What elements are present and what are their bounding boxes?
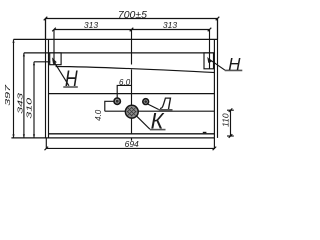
dimension 310 line — [33, 62, 35, 138]
tick 700 right — [216, 17, 220, 21]
svg-text:694: 694 — [125, 139, 139, 149]
hole big hatched — [125, 105, 138, 118]
part right edge outer — [217, 19, 219, 138]
svg-text:110: 110 — [220, 113, 230, 127]
svg-text:4.0: 4.0 — [94, 109, 103, 121]
center line dashed — [131, 30, 133, 141]
arrowhead H right — [207, 57, 211, 63]
svg-text:313: 313 — [163, 20, 177, 30]
svg-text:6.0: 6.0 — [119, 78, 131, 87]
label underline H left — [63, 86, 78, 88]
svg-text:H: H — [228, 54, 241, 74]
part left edge inner — [48, 39, 50, 137]
extension line hinge row 310 — [34, 61, 50, 63]
sloped fold line — [56, 65, 214, 73]
part right edge inner — [213, 39, 215, 137]
dimension 700±5 line — [46, 19, 218, 40]
bottom inner line — [49, 133, 215, 135]
extension line right hinge center — [209, 30, 211, 69]
leader H right — [209, 59, 225, 70]
extension stub 110 top — [227, 109, 234, 111]
leader K — [136, 116, 150, 130]
svg-text:343: 343 — [17, 93, 25, 114]
dimension 313+313 line — [54, 29, 210, 31]
extension stub 110 bottom — [227, 135, 234, 137]
part top edge — [14, 38, 218, 40]
dim 40 bracket — [105, 101, 114, 111]
part rail line 2 with left extension — [24, 52, 215, 54]
svg-text:700±5: 700±5 — [118, 9, 147, 21]
tick 694 left — [45, 147, 49, 151]
svg-text:К: К — [151, 108, 165, 133]
dimension 110 line — [230, 110, 232, 136]
svg-text:397: 397 — [4, 85, 12, 106]
label underline K — [150, 129, 166, 131]
label underline H right — [225, 69, 243, 71]
hinge rect left — [50, 53, 61, 65]
dim 60 shelf — [117, 85, 132, 97]
small mark above bottom edge — [203, 132, 207, 134]
arrowheads left dims — [12, 39, 35, 137]
mid line 4 — [49, 93, 215, 95]
tick 700 left — [44, 17, 48, 21]
leader L — [148, 104, 159, 109]
extension line left hinge center — [53, 30, 55, 65]
leader H left — [53, 60, 69, 86]
tick 694 right — [213, 147, 217, 151]
mid line 5 — [105, 110, 215, 112]
tick 313 left — [52, 28, 56, 32]
tick 313 right — [208, 28, 212, 32]
dimension 343 line — [23, 53, 25, 138]
arrowhead H left — [52, 57, 57, 64]
dimension 694 line — [46, 138, 214, 149]
hinge rect right — [204, 53, 214, 69]
tick 313 mid — [130, 28, 134, 32]
hole small right — [143, 99, 149, 105]
hole small left — [114, 98, 120, 104]
label underline L — [159, 109, 173, 111]
dimension 397 line — [13, 39, 15, 137]
tick 110 top — [229, 108, 233, 112]
part bottom edge with left extension — [11, 137, 214, 139]
svg-text:310: 310 — [26, 97, 34, 118]
part left edge outer — [45, 19, 47, 138]
svg-text:H: H — [65, 66, 78, 91]
svg-text:313: 313 — [84, 20, 98, 30]
tick 110 bottom — [229, 134, 233, 138]
